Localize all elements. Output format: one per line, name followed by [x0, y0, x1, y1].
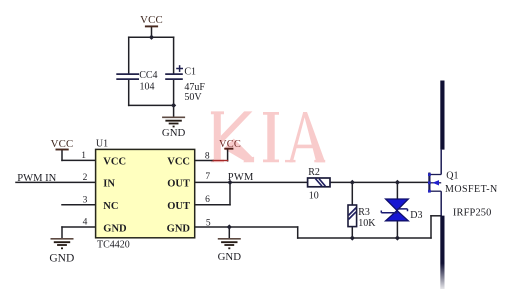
svg-text:VCC: VCC: [167, 157, 190, 168]
svg-text:50V: 50V: [184, 92, 202, 103]
svg-text:GND: GND: [218, 251, 242, 263]
svg-text:VCC: VCC: [51, 138, 74, 150]
svg-text:R2: R2: [308, 167, 320, 178]
svg-text:GND: GND: [167, 223, 191, 234]
svg-text:7: 7: [205, 172, 210, 182]
svg-text:GND: GND: [103, 223, 127, 234]
svg-text:1: 1: [81, 151, 86, 161]
svg-text:PWM IN: PWM IN: [17, 173, 56, 184]
svg-text:CC4: CC4: [139, 70, 157, 81]
svg-text:U1: U1: [96, 138, 108, 149]
svg-text:D3: D3: [410, 210, 422, 221]
svg-text:IN: IN: [103, 179, 115, 190]
svg-text:VCC: VCC: [140, 14, 163, 26]
svg-text:VCC: VCC: [103, 157, 126, 168]
svg-text:Q1: Q1: [446, 171, 458, 182]
svg-text:8: 8: [205, 151, 210, 161]
svg-text:10: 10: [309, 191, 319, 202]
svg-text:R3: R3: [358, 207, 370, 218]
svg-text:NC: NC: [103, 201, 118, 212]
svg-text:PWM: PWM: [228, 172, 254, 183]
svg-text:IRFP250: IRFP250: [453, 207, 492, 218]
svg-text:10K: 10K: [358, 218, 376, 229]
svg-text:104: 104: [140, 82, 155, 93]
svg-text:GND: GND: [49, 252, 74, 264]
svg-text:VCC: VCC: [219, 139, 241, 150]
svg-text:6: 6: [205, 195, 210, 205]
svg-text:MOSFET-N: MOSFET-N: [445, 184, 498, 195]
svg-text:TC4420: TC4420: [97, 240, 130, 251]
svg-text:4: 4: [83, 218, 88, 228]
svg-text:OUT: OUT: [167, 179, 190, 190]
svg-text:GND: GND: [162, 127, 186, 139]
svg-text:3: 3: [83, 195, 88, 205]
svg-text:C1: C1: [184, 67, 196, 78]
svg-text:5: 5: [206, 218, 211, 228]
svg-text:OUT: OUT: [167, 201, 190, 212]
svg-text:2: 2: [83, 173, 88, 183]
